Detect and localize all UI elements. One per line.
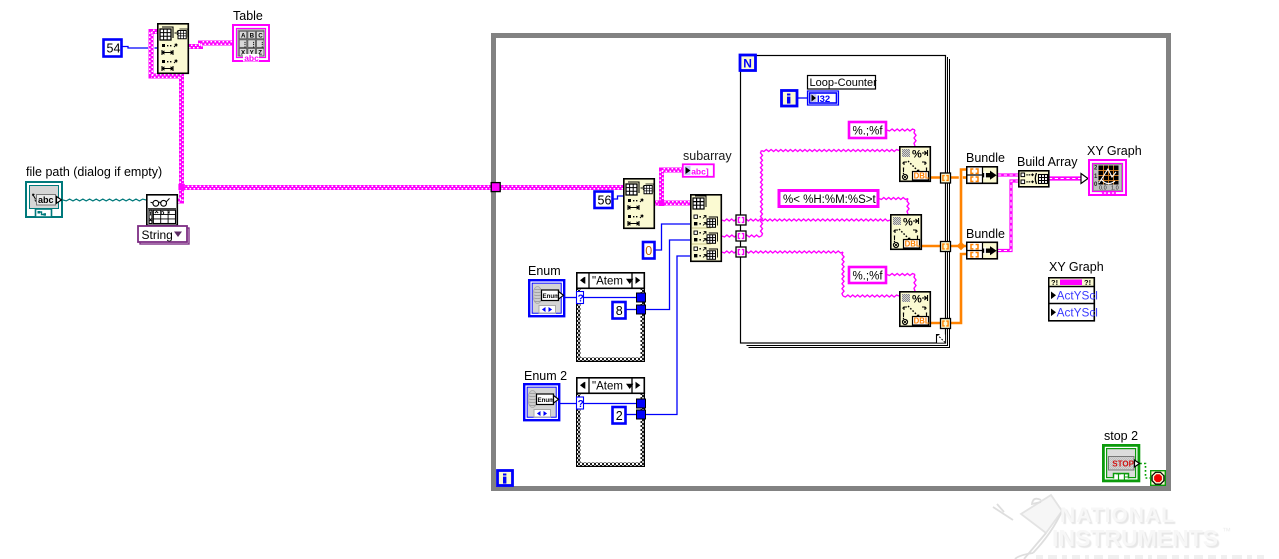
svg-text:54: 54 [107, 42, 121, 56]
svg-text:XY Graph: XY Graph [1087, 144, 1142, 158]
Loop-Counter I32 indicator [808, 91, 839, 105]
wire: enum 1 to case 1 selector [565, 297, 577, 299]
svg-text:2: 2 [616, 409, 623, 423]
constant 2 in case 2 [613, 407, 626, 424]
svg-text:DBL: DBL [914, 316, 930, 325]
constant 8 in case 1 [613, 302, 626, 319]
svg-text:0.0: 0.0 [1099, 186, 1107, 192]
svg-text:1.0: 1.0 [1111, 186, 1119, 192]
wire: stop 2 to loop condition terminal [1140, 464, 1150, 479]
wire: time format string to scan node 2 [879, 198, 908, 200]
scan from string node 1 [900, 147, 931, 182]
tunnel on while loop border (string array in) [491, 183, 500, 192]
National Instruments watermark logo [993, 495, 1264, 559]
XY Graph property node (ActYScl x2) [1049, 278, 1098, 321]
index array node (3 outputs) [691, 195, 722, 261]
svg-text:T F: T F [1116, 472, 1128, 481]
svg-text:I32: I32 [817, 94, 830, 105]
svg-text:56: 56 [598, 194, 612, 208]
String type selector dropdown [138, 226, 189, 244]
svg-text:B: B [250, 32, 255, 39]
svg-text:%: % [912, 149, 922, 161]
stop 2 boolean control [1103, 445, 1139, 481]
array subset node 2 (in while loop) [624, 179, 655, 229]
wire: main 2D string array into while loop [182, 185, 624, 190]
svg-text:C: C [258, 32, 263, 39]
i iteration terminal (for loop) [782, 91, 798, 107]
svg-text:Enum: Enum [538, 397, 556, 404]
wire: file path control to read-spreadsheet node [63, 199, 146, 201]
wire: build array output to XY Graph terminal [1049, 176, 1081, 180]
svg-text:STOP: STOP [1112, 459, 1134, 468]
svg-text:abc: abc [244, 53, 259, 63]
read spreadsheet file node [147, 195, 178, 226]
svg-text:Bundle: Bundle [966, 227, 1005, 241]
wire: constant 54 to top array subset [122, 47, 148, 49]
Bundle node 1 [967, 167, 998, 184]
svg-text:String: String [142, 228, 173, 242]
case1 selector tunnel ? [577, 292, 584, 305]
svg-text:INSTRUMENTS: INSTRUMENTS [1052, 525, 1218, 551]
svg-text:Bundle: Bundle [966, 151, 1005, 165]
wire: 2D string array from read-file node up to top array-subset node [151, 32, 182, 202]
for loop frame (stacked) [741, 56, 950, 348]
i iteration terminal (while loop) [498, 471, 513, 486]
wire: case2 selector to tunnel A inside [583, 403, 637, 405]
format string constant %.;%f (1) [849, 122, 886, 138]
wire: case2 tunnel B to index array input 3 [645, 256, 691, 415]
wire: constant 2 to case2 tunnel B [625, 414, 637, 416]
constant 56 [595, 192, 613, 209]
svg-text:%: % [903, 217, 913, 229]
svg-text:DBL: DBL [914, 171, 930, 180]
for loop dog-ear corner [937, 335, 946, 343]
svg-text:DBL: DBL [905, 239, 921, 248]
Loop-Counter label [808, 76, 878, 90]
wire: scan1 DBL out to bundle1 lower input [931, 176, 959, 179]
svg-text:⋮: ⋮ [242, 40, 249, 48]
wire: scan2 DBL out to junction, bundle1 upper and bundle2 upper inputs [922, 245, 966, 248]
case2 output tunnel B [637, 410, 646, 419]
constant 0 [643, 242, 655, 259]
case1 output tunnel A [637, 293, 646, 302]
loop condition terminal (stop sign) [1151, 471, 1166, 486]
wire: case1 tunnel B to index array input 2 [645, 240, 691, 310]
wire: index array row 1 to for-loop tunnel and scan node 2 [722, 219, 890, 221]
subarray indicator [683, 164, 714, 177]
wire: index array row 3 to scan node 3 [722, 251, 843, 253]
svg-text:stop 2: stop 2 [1104, 429, 1138, 443]
svg-text:™: ™ [1222, 526, 1231, 536]
junction dot on string wire [178, 184, 184, 190]
svg-text:A: A [241, 32, 246, 39]
case2 output tunnel A [637, 399, 646, 408]
case structure 1 ("Atem") [576, 273, 645, 362]
wire: bundle2 output cluster to build array [998, 181, 1018, 251]
case1 output tunnel B [637, 305, 646, 314]
svg-text:"Atem: "Atem [592, 381, 623, 393]
wire: scan3 DBL out to bundle2 lower input [931, 254, 966, 323]
svg-text:abc]: abc] [691, 166, 709, 176]
svg-text:Build Array: Build Array [1017, 155, 1078, 169]
wire: constant 0 to index array input 1 [655, 224, 691, 250]
Build Array node [1019, 171, 1049, 187]
case structure 2 ("Atem") [576, 378, 645, 467]
Table indicator [233, 25, 269, 63]
while loop frame [494, 36, 1169, 489]
for-loop left border tunnels (string in) [736, 215, 746, 225]
for-loop right border tunnels (DBL array out) [941, 173, 951, 183]
wire: i terminal to Loop-Counter I32 [797, 97, 807, 99]
wire: index array row 2 to scan node 1 [722, 235, 762, 237]
svg-text:file path (dialog if empty): file path (dialog if empty) [26, 165, 162, 179]
svg-text:%.;%f: %.;%f [853, 271, 884, 283]
Enum 2 control [524, 384, 559, 420]
format string constant %.;%f (2) [849, 267, 886, 283]
Bundle node 2 [967, 242, 998, 258]
wire: format string %.;%f 2 to scan node 3 [887, 274, 915, 276]
svg-text:N: N [743, 57, 752, 71]
svg-text:XY Graph: XY Graph [1049, 260, 1104, 274]
svg-text:%< %H:%M:%S>t: %< %H:%M:%S>t [783, 194, 876, 206]
svg-text:ActYScl: ActYScl [1057, 306, 1098, 320]
svg-text:Enum: Enum [543, 293, 561, 300]
case2 selector tunnel ? [577, 397, 584, 410]
svg-text:%: % [912, 294, 922, 306]
svg-text:NATIONAL: NATIONAL [1060, 504, 1175, 527]
svg-text:%.;%f: %.;%f [853, 126, 884, 138]
N count terminal [740, 55, 756, 71]
array subset node (top, feeds Table) [158, 24, 189, 74]
Enum control [529, 280, 564, 316]
svg-text:Enum: Enum [528, 264, 561, 278]
XY Graph indicator terminal [1089, 160, 1126, 195]
file path (dialog if empty) control [26, 182, 62, 217]
svg-text:Loop-Counter: Loop-Counter [810, 77, 878, 89]
svg-text:⋮: ⋮ [259, 40, 266, 48]
wire: subarray branch from array subset 2 [654, 201, 690, 206]
svg-text:Enum 2: Enum 2 [524, 369, 567, 383]
wire: bundle1 output cluster to build array [998, 173, 1018, 176]
wire: table branch from top array subset output [189, 43, 233, 47]
scan from string node 2 [891, 215, 922, 250]
wire: constant 8 to case1 tunnel B [626, 309, 637, 311]
svg-text:0: 0 [645, 244, 652, 258]
svg-text:?: ? [578, 399, 584, 410]
svg-text:8: 8 [616, 304, 623, 318]
svg-text:subarray: subarray [683, 149, 732, 163]
wire: constant 56 to array subset 2 [613, 196, 623, 199]
time format string constant [779, 191, 878, 207]
svg-text:Table: Table [233, 9, 263, 23]
wire: format string %.;%f to scan node 1 [887, 129, 915, 131]
wire: enum 2 to case 2 selector [560, 403, 577, 405]
svg-text:?: ? [578, 293, 584, 304]
svg-text:ActYScl: ActYScl [1057, 289, 1098, 303]
constant 54 [104, 40, 122, 57]
wire: case1 selector to tunnel A inside [583, 297, 637, 299]
svg-text:"Atem: "Atem [592, 276, 623, 288]
svg-text:⋮: ⋮ [250, 40, 257, 48]
svg-text:abc: abc [38, 195, 54, 205]
scan from string node 3 [900, 292, 931, 327]
